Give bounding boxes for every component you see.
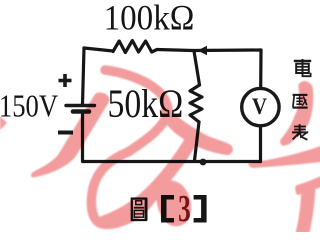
caption bracket 】 bbox=[194, 195, 207, 223]
svg-text:V: V bbox=[252, 93, 267, 119]
wire battery bottom to bottom-left corner bbox=[81, 113, 84, 161]
watermark wide band stroke bbox=[31, 92, 109, 177]
wire node A to top-right corner bbox=[193, 48, 261, 52]
watermark stroke 告 box right vertical bbox=[296, 182, 316, 233]
wire voltmeter bottom to bottom-right corner bbox=[259, 126, 262, 162]
battery minus sign bbox=[58, 131, 73, 135]
battery plus sign bbox=[59, 74, 72, 87]
wire top-left to resistor bbox=[84, 48, 113, 51]
wire right branch top (to voltmeter) bbox=[259, 50, 262, 89]
watermark stroke 告 horizontal bbox=[248, 146, 320, 169]
label 電 (dian) vertical annotation bbox=[294, 59, 311, 76]
watermark hook blob bbox=[156, 180, 191, 226]
wire node A down to resistor 50k bbox=[194, 51, 200, 85]
watermark stroke 告 over biao bbox=[280, 81, 313, 146]
battery 150V short plate (-) bbox=[73, 109, 89, 114]
watermark 公告 pink overlay bbox=[0, 70, 320, 233]
watermark left edge tip bbox=[0, 116, 7, 130]
resistor 50kΩ vertical zigzag bbox=[190, 85, 202, 122]
svg-text:100kΩ: 100kΩ bbox=[104, 0, 195, 38]
junction dot (bottom node) bbox=[200, 159, 207, 166]
watermark stroke head arc bbox=[91, 70, 168, 224]
caption bracket 【 bbox=[161, 195, 174, 223]
svg-text:150V: 150V bbox=[0, 90, 58, 125]
voltmeter V circle bbox=[242, 88, 279, 125]
watermark stroke 告 box top bbox=[295, 176, 320, 196]
wire resistor 100kΩ to node A bbox=[157, 50, 193, 51]
wire resistor 50k to bottom wire bbox=[195, 122, 200, 161]
caption 圖 (figure) character bbox=[132, 198, 146, 221]
label 壓 (ya) vertical annotation bbox=[293, 95, 308, 108]
resistor 100kΩ zigzag bbox=[113, 41, 157, 53]
current arrow at node A bbox=[198, 46, 208, 55]
label 表 (biao) vertical annotation bbox=[292, 124, 308, 140]
battery 150V long plate (+) bbox=[66, 104, 95, 107]
wire left branch vertical (battery top) bbox=[83, 48, 85, 104]
watermark fan stroke bbox=[160, 107, 233, 155]
watermark diagonal stroke bbox=[104, 139, 192, 222]
wire bottom horizontal bbox=[83, 160, 261, 163]
